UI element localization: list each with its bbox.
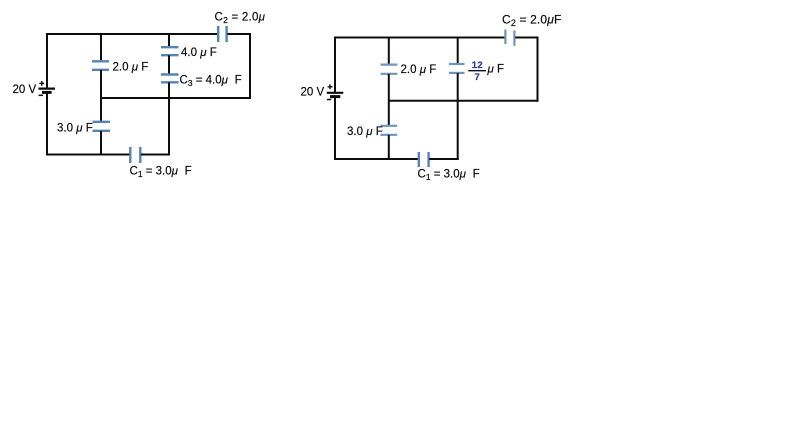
capacitor C1b plate A bbox=[418, 152, 420, 167]
wire left vertical upper (battery + to top-left corner) bbox=[46, 33, 48, 89]
battery V2 20V long plate bbox=[327, 92, 344, 94]
wire bottom horizontal right segment right circuit bbox=[429, 158, 459, 160]
battery minus sign bbox=[39, 94, 43, 96]
wire left vertical upper right circuit bbox=[334, 37, 336, 93]
wire top horizontal left segment bbox=[46, 33, 217, 35]
wire inner vertical 1 middle segment bbox=[100, 70, 102, 122]
wire bottom horizontal left segment bbox=[46, 154, 130, 156]
wire inner vertical 2 top segment right circuit bbox=[457, 37, 459, 65]
wire right vertical bbox=[249, 33, 251, 99]
battery V1 20V short plate bbox=[42, 91, 52, 94]
wire middle horizontal right circuit bbox=[389, 100, 539, 102]
capacitor C2 plate B bbox=[225, 26, 227, 42]
capacitor 2.0uF plate B bbox=[92, 69, 109, 71]
wire right vertical right circuit bbox=[537, 37, 539, 102]
svg-text:3.0 μ F: 3.0 μ F bbox=[57, 123, 93, 135]
wire inner vertical 2 top segment bbox=[168, 33, 170, 47]
svg-text:2.0 μ F: 2.0 μ F bbox=[113, 62, 149, 74]
label 12/7 uF fraction bar bbox=[468, 70, 486, 72]
svg-text:3.0 μ F: 3.0 μ F bbox=[347, 126, 383, 138]
svg-text:20 V: 20 V bbox=[13, 84, 37, 96]
capacitor C2b plate A bbox=[504, 30, 506, 45]
wire inner vertical 1 bottom segment right circuit bbox=[388, 135, 390, 160]
wire inner vertical 1 top segment bbox=[100, 33, 102, 61]
battery V1 20V long plate bbox=[39, 87, 56, 89]
wire bottom horizontal left segment right circuit bbox=[334, 158, 418, 160]
capacitor C3 plate B bbox=[161, 81, 179, 83]
wire left vertical lower (battery - to bottom-left corner) bbox=[46, 92, 48, 155]
capacitor C1 plate B bbox=[139, 147, 141, 163]
wire inner vertical 1 top segment right circuit bbox=[388, 37, 390, 65]
svg-text:20 V: 20 V bbox=[301, 87, 325, 99]
svg-text:2.0 μ F: 2.0 μ F bbox=[401, 64, 437, 76]
capacitor 3.0uF plate B bbox=[93, 130, 111, 132]
wire bottom horizontal right segment bbox=[141, 154, 170, 156]
capacitor 12/7 uF plate B bbox=[449, 72, 465, 74]
svg-text:4.0 μ F: 4.0 μ F bbox=[181, 47, 217, 59]
wire inner vertical 2 bottom segment bbox=[168, 82, 170, 155]
wire inner vertical 1 middle segment right circuit bbox=[388, 74, 390, 126]
capacitor 3.0uF plate A bbox=[93, 121, 111, 123]
wire left vertical lower right circuit bbox=[334, 96, 336, 160]
capacitor 3.0uF right circuit plate B bbox=[381, 134, 398, 136]
capacitor C1 plate A bbox=[129, 147, 131, 163]
capacitor 12/7 uF plate A bbox=[449, 63, 465, 65]
capacitor C2 plate A bbox=[217, 26, 219, 42]
svg-text:7: 7 bbox=[475, 72, 480, 83]
wire top horizontal left segment right circuit bbox=[334, 37, 505, 39]
svg-text:μ F: μ F bbox=[487, 64, 505, 76]
capacitor 2.0uF right circuit plate A bbox=[381, 63, 398, 65]
svg-text:12: 12 bbox=[472, 60, 483, 71]
wire inner vertical 2 bottom segment right circuit bbox=[457, 73, 459, 160]
capacitor 4.0uF plate A bbox=[161, 46, 179, 48]
svg-text:C2 = 2.0μ: C2 = 2.0μ bbox=[215, 12, 266, 26]
battery V2 20V short plate bbox=[330, 95, 340, 98]
wire top horizontal right segment right circuit bbox=[515, 37, 538, 39]
capacitor C3 plate A bbox=[161, 73, 179, 75]
capacitor 4.0uF plate B bbox=[161, 54, 179, 56]
battery V2 minus sign bbox=[327, 99, 331, 101]
capacitor C2b plate B bbox=[513, 31, 515, 46]
wire inner vertical 2 middle segment bbox=[168, 55, 170, 74]
wire top horizontal right segment bbox=[227, 33, 251, 35]
battery V2 plus sign bbox=[328, 84, 333, 89]
capacitor 3.0uF right circuit plate A bbox=[381, 125, 398, 127]
wire middle horizontal bbox=[100, 97, 251, 99]
capacitor C1b plate B bbox=[427, 152, 429, 167]
wire inner vertical 1 bottom segment bbox=[100, 131, 102, 156]
battery plus sign bbox=[39, 81, 44, 86]
capacitor 2.0uF right circuit plate B bbox=[381, 73, 398, 75]
capacitor 2.0uF plate A bbox=[92, 60, 109, 62]
